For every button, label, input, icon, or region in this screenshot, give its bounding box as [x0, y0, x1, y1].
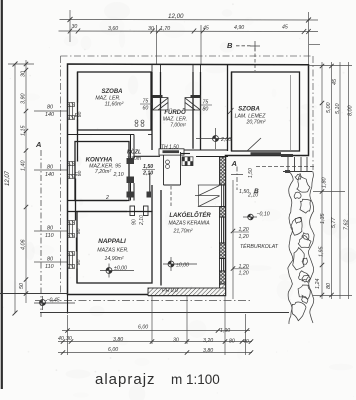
dim line R3: [339, 62, 341, 299]
szoba2 bottom wall dark sill: [251, 152, 282, 155]
entry door circles: [166, 160, 170, 169]
svg-text:1,70: 1,70: [160, 26, 170, 32]
outer wall outline: [68, 64, 309, 296]
svg-text:12,00: 12,00: [168, 13, 184, 20]
svg-text:7,20m²: 7,20m²: [95, 169, 111, 175]
room label szoba1: [95, 89, 123, 108]
nappali room box: [77, 212, 152, 284]
wall konyha/közl lower: [131, 183, 135, 201]
wall szoba1/konyha extra line: [68, 134, 153, 136]
svg-text:SZOBA: SZOBA: [238, 106, 260, 113]
svg-text:1,20: 1,20: [239, 271, 249, 277]
door jamb block B: [127, 192, 135, 198]
window callout 4: line: [34, 261, 68, 263]
lako elotér right wall plain seg2: [220, 259, 226, 272]
wall junction ticks top band: [152, 65, 201, 73]
szoba2 extra inner line right: [290, 75, 292, 151]
svg-text:2,10: 2,10: [247, 193, 258, 199]
svg-text:5,00: 5,00: [326, 103, 332, 114]
dim line R1: [321, 62, 323, 299]
bottom dim line D1: [62, 330, 250, 332]
svg-text:75: 75: [203, 100, 209, 106]
svg-text:TH 1,50: TH 1,50: [161, 145, 179, 151]
R1 ticks: [320, 64, 324, 297]
svg-text:80: 80: [229, 339, 235, 345]
left wall inner face (with window gaps): [76, 72, 78, 283]
dim line L2 chain: [25, 60, 27, 303]
svg-text:3,80: 3,80: [113, 337, 123, 343]
svg-text:80: 80: [77, 170, 83, 176]
lako elotér right wall end seg: [220, 284, 226, 296]
svg-text:2: 2: [105, 195, 109, 201]
svg-text:4,06: 4,06: [21, 240, 27, 251]
svg-text:2,00: 2,00: [220, 137, 231, 143]
svg-text:40: 40: [243, 339, 249, 345]
window callout 1: line: [34, 110, 68, 112]
witness verticals bottom: [68, 296, 246, 355]
window callout 3: line: [34, 230, 68, 232]
steps edge line: [40, 312, 289, 314]
svg-text:80: 80: [47, 226, 53, 232]
svg-text:SZOBA: SZOBA: [102, 89, 123, 95]
svg-text:20,70m²: 20,70m²: [245, 120, 265, 126]
ticks L2: [24, 62, 28, 296]
small dark mark steps: [285, 170, 290, 173]
svg-text:A: A: [35, 140, 41, 149]
svg-text:1,50: 1,50: [143, 164, 153, 170]
svg-text:3,80: 3,80: [203, 348, 213, 354]
svg-text:140: 140: [45, 112, 54, 118]
entry door jambs: [164, 152, 181, 185]
svg-text:80: 80: [47, 257, 53, 263]
witness line at x201: [200, 25, 202, 64]
svg-text:1,20: 1,20: [239, 264, 249, 270]
chimney C2 solid bar: [191, 95, 201, 98]
section line B dashes: [236, 45, 252, 47]
lako elotér right wall plain seg: [220, 217, 226, 243]
dim line east wall: [232, 180, 234, 299]
witness line right mid: [313, 191, 345, 193]
svg-text:45: 45: [203, 26, 209, 32]
wall konyha/nappali band: [68, 201, 128, 212]
svg-text:1,95: 1,95: [319, 246, 325, 257]
wall szoba1/fürdő: fürdő left face: [151, 72, 153, 150]
svg-text:80: 80: [76, 259, 82, 265]
bottom dim line D3: [58, 352, 252, 354]
door jamb konyha-nappali wall right: [130, 206, 148, 216]
section line B vertical dashed: [254, 48, 256, 71]
chimney C1 box with diagonals: [153, 98, 169, 110]
svg-text:45: 45: [332, 78, 338, 85]
witness line at x157: [156, 25, 158, 64]
svg-text:1,20: 1,20: [239, 234, 249, 240]
D1 ticks: [65, 328, 249, 332]
chimney C2 box with diagonals: [185, 98, 201, 110]
svg-text:±0,00: ±0,00: [114, 266, 127, 272]
window W1 szoba1: [68, 103, 75, 120]
svg-text:80: 80: [47, 105, 53, 111]
svg-text:80: 80: [203, 107, 209, 113]
svg-text:±0,00: ±0,00: [176, 263, 189, 269]
svg-text:60: 60: [143, 106, 149, 112]
szoba2 room box: [232, 72, 300, 151]
witness line right bottom: [313, 295, 352, 297]
tick marks T1: [68, 17, 312, 23]
svg-text:75: 75: [143, 99, 149, 105]
svg-text:140: 140: [45, 172, 54, 178]
witness line right short: [309, 44, 320, 46]
svg-text:3,80m: 3,80m: [127, 156, 141, 162]
svg-text:B: B: [227, 41, 233, 50]
level mark M5 outside -0,45: [34, 296, 75, 310]
level mark M3 lako 0,00: [163, 257, 197, 271]
svg-text:80: 80: [326, 283, 332, 289]
terrain dash-dot line: [35, 300, 250, 302]
section line B cross: [250, 41, 260, 51]
svg-text:14,90m²: 14,90m²: [104, 256, 123, 262]
svg-text:alaprajz: alaprajz: [95, 371, 156, 388]
level mark M4 outside -0,10: [243, 212, 270, 220]
vegetation wavy strip: [288, 171, 314, 324]
svg-text:3,60: 3,60: [108, 26, 118, 32]
door jamb block A: [127, 158, 135, 164]
svg-text:1,50: 1,50: [248, 168, 254, 178]
section line A left vertical dash-dot: [40, 150, 42, 317]
wall konyha/közl upper: [131, 135, 150, 192]
svg-text:90: 90: [132, 219, 138, 225]
svg-text:1,24: 1,24: [315, 279, 321, 290]
window W2 konyha: [68, 162, 75, 179]
witness line at x308: [308, 12, 310, 64]
room label közl: [127, 149, 141, 162]
svg-text:30: 30: [21, 71, 27, 77]
section line A horizontal dashed: [256, 166, 315, 168]
svg-text:50: 50: [19, 283, 25, 289]
chimney C1 solid bar: [153, 95, 163, 98]
svg-text:KÖZL: KÖZL: [127, 149, 141, 156]
svg-text:30: 30: [148, 26, 154, 32]
left terrace side wall: [67, 295, 69, 314]
svg-text:8,00: 8,00: [348, 106, 354, 117]
witness line right top: [309, 65, 353, 67]
svg-text:30: 30: [72, 24, 78, 30]
ticks L1: [13, 62, 18, 316]
svg-text:1,80: 1,80: [322, 178, 328, 189]
R2 ticks: [329, 64, 333, 297]
terrain line left: [0, 293, 68, 295]
door diag corridor-szoba2: [228, 108, 234, 114]
fürdő room box right wall: [192, 72, 194, 149]
svg-text:FÜRDÕ: FÜRDÕ: [164, 109, 186, 116]
dim mini leader lines: [233, 231, 249, 233]
svg-text:3,20: 3,20: [203, 338, 213, 344]
svg-text:12,07: 12,07: [5, 170, 11, 186]
lako elotér right wall hatched seg2: [220, 207, 226, 218]
room label lakóelőtér: [168, 211, 211, 235]
svg-text:2,10: 2,10: [113, 172, 124, 178]
corridor window rect: [159, 149, 184, 155]
room label nappali: [97, 238, 128, 262]
east window casement symbol: [195, 185, 220, 207]
svg-text:7,00m²: 7,00m²: [170, 123, 186, 129]
svg-text:45: 45: [282, 25, 288, 31]
svg-text:1,40: 1,40: [21, 161, 27, 172]
svg-text:NAPPALI: NAPPALI: [98, 238, 126, 245]
svg-text:MAZAS KER.: MAZAS KER.: [97, 248, 128, 254]
nappali/lako wall second line: [160, 190, 162, 286]
lako elotér right wall hatched seg3: [220, 243, 226, 259]
dim line L1 overall: [14, 64, 16, 313]
konyha room box: [75, 142, 129, 201]
door jamb block A2: [127, 177, 135, 184]
svg-text:110: 110: [45, 264, 54, 270]
dim line R2: [331, 62, 333, 299]
svg-text:11,60m²: 11,60m²: [105, 102, 124, 108]
dim ticks east wall: [231, 229, 235, 271]
svg-text:6,00: 6,00: [108, 347, 118, 353]
window W4 nappali: [68, 252, 75, 269]
svg-text:80: 80: [47, 165, 53, 171]
door jamb block C: [147, 192, 152, 198]
witness line at x70: [69, 10, 71, 42]
dim line T1 total: [60, 19, 319, 22]
svg-text:30: 30: [173, 338, 179, 344]
svg-text:1,20: 1,20: [239, 227, 249, 233]
svg-text:1,15: 1,15: [21, 125, 27, 136]
terrace south band hatched: [148, 288, 226, 296]
dim line R4: [348, 62, 350, 299]
szoba2 corner dark block: [281, 154, 293, 157]
door marks 8-8 szoba1: [135, 120, 144, 127]
svg-text:5,77: 5,77: [331, 217, 337, 228]
corridor south wall band: [134, 150, 228, 157]
svg-text:5,10: 5,10: [335, 104, 341, 115]
section line B continuation: [170, 186, 172, 206]
room label fürdő: [163, 109, 187, 129]
right terrace steps vertical lines: [283, 157, 312, 172]
szoba1 room box: [78, 72, 152, 130]
svg-text:6,00: 6,00: [138, 325, 148, 331]
window callout 2: line: [34, 169, 68, 171]
svg-text:−0,10: −0,10: [257, 212, 270, 218]
dim line T2 chain: [59, 30, 319, 33]
svg-text:MAZAS KERAMIA: MAZAS KERAMIA: [168, 221, 210, 227]
window side labels rotated 80: [76, 111, 83, 265]
svg-text:40: 40: [58, 336, 64, 342]
window W3 nappali: [68, 221, 75, 238]
svg-text:2,10: 2,10: [142, 171, 153, 177]
svg-text:PH 0,0: PH 0,0: [162, 288, 178, 294]
room label konyha: [86, 157, 121, 176]
svg-text:80: 80: [76, 228, 82, 234]
svg-text:4,90: 4,90: [234, 25, 244, 31]
tick marks T2: [68, 29, 311, 35]
svg-text:TÉRBURKOLAT: TÉRBURKOLAT: [240, 243, 279, 250]
svg-text:KONYHA: KONYHA: [86, 157, 113, 164]
svg-text:3,90: 3,90: [21, 94, 27, 105]
svg-text:2,10: 2,10: [139, 215, 145, 226]
lako elotér right wall hatched upper: [220, 157, 226, 185]
level mark M2 nappali 0,00: [100, 264, 134, 278]
svg-text:80: 80: [77, 111, 83, 117]
witness line top at y64: [8, 63, 34, 65]
room label szoba2: [235, 106, 267, 126]
svg-text:1,35: 1,35: [320, 213, 326, 224]
D2 ticks: [61, 339, 253, 343]
lako elotér right wall hatched seg4: [220, 271, 226, 284]
svg-text:A: A: [231, 159, 237, 168]
svg-text:m 1:100: m 1:100: [171, 372, 220, 387]
szoba2 door diagonal: [247, 138, 261, 151]
D3 ticks: [61, 350, 253, 354]
svg-text:LAKÓELÕTÉR: LAKÓELÕTÉR: [169, 211, 211, 219]
svg-text:30: 30: [66, 336, 72, 342]
svg-text:110: 110: [45, 233, 54, 239]
svg-text:1,90: 1,90: [220, 328, 230, 334]
level mark M1 corridor 2,00: [196, 128, 232, 149]
svg-text:21,70m²: 21,70m²: [172, 229, 192, 235]
checkerboard chimney: [182, 157, 193, 166]
east window opening lines: [220, 185, 226, 207]
section line A middle cross: [231, 174, 243, 176]
sheet border left edge: [1, 0, 3, 389]
bottom dim line D2: [58, 341, 252, 343]
section line A middle vertical: [236, 167, 238, 191]
roof outline dashed: [61, 56, 314, 294]
szoba2 left wall: [227, 65, 229, 151]
